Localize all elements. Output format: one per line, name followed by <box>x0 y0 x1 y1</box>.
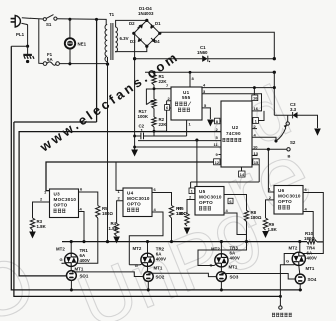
ground arrow R6 <box>184 228 191 235</box>
wire terminal riser to ch4 gate line <box>280 265 284 297</box>
svg-text:1: 1 <box>141 128 144 133</box>
U6 pin4 wire <box>303 212 313 242</box>
svg-text:555: 555 <box>182 95 191 100</box>
socket SO1 <box>67 271 77 281</box>
U2 pin16 Vcc stub <box>253 88 255 101</box>
junction node <box>245 240 248 243</box>
socket SO2 <box>143 272 153 282</box>
svg-text:6A: 6A <box>47 57 53 62</box>
resistor R1 22K <box>152 75 156 86</box>
wire TR3 MT1 to SO3 <box>220 267 222 272</box>
optocoupler U4 <box>123 188 152 217</box>
wire TR2 MT2 riser <box>147 242 149 254</box>
bridge rectifier D1-D4 <box>129 6 161 48</box>
U5 pin1 stub boxed <box>189 188 195 194</box>
svg-text:6: 6 <box>154 187 157 192</box>
switch S2 <box>274 122 295 159</box>
U2 pin 11 bus wire to U4 pin1 <box>135 146 221 148</box>
node pin5 bus at U5 drop <box>195 138 198 141</box>
rail V+ y72.3 <box>145 71 274 73</box>
U3 pin2 stub to R3 <box>33 202 50 218</box>
svg-text:MOC3010: MOC3010 <box>199 195 222 200</box>
svg-text:SO4: SO4 <box>308 277 317 282</box>
junction node <box>132 32 135 35</box>
svg-text:MOC3010: MOC3010 <box>127 196 150 201</box>
U6 pin6 wire down right <box>284 193 323 265</box>
wire drop to U5 top <box>196 140 198 186</box>
wire SO3 left return <box>148 273 216 276</box>
pin 6 label boxed <box>165 105 170 111</box>
IC U2 box <box>221 101 252 167</box>
earth ground symbol <box>23 46 34 63</box>
resistor R4 1.8K <box>114 224 118 237</box>
wire V+ column down to C3 line <box>273 72 275 115</box>
svg-text:MOC3010: MOC3010 <box>278 194 301 199</box>
junction node <box>220 240 223 243</box>
node NE1 bottom <box>68 62 71 65</box>
wire top line S1 to T1 <box>57 19 106 25</box>
op-amp U1 555 timer box <box>171 87 202 120</box>
node U6 feed on pin10 wire <box>267 148 270 151</box>
svg-text:180Ω: 180Ω <box>304 236 315 241</box>
svg-text:7: 7 <box>166 83 169 88</box>
svg-text:1N4003: 1N4003 <box>138 11 154 16</box>
svg-text:13: 13 <box>254 151 259 156</box>
ground arrow C3 <box>314 129 321 136</box>
wire secondary bottom to bridge bottom vertex <box>116 46 147 51</box>
svg-text:400V: 400V <box>230 256 240 261</box>
svg-text:U2: U2 <box>232 125 239 130</box>
capacitor C2 1 <box>135 124 154 140</box>
wire TR4 MT2 riser <box>299 242 301 253</box>
node TR4 MT2 on rail <box>298 240 301 243</box>
wire plug to S1 <box>30 17 43 20</box>
gray watermark outline letters <box>0 71 326 321</box>
node case terminal on rail2 <box>279 295 282 298</box>
svg-text:MT1: MT1 <box>75 267 84 272</box>
capacitor C3 3.3 <box>274 102 317 128</box>
svg-text:MT1: MT1 <box>229 265 238 270</box>
junction node <box>274 139 277 142</box>
optocoupler U5 <box>195 187 224 216</box>
U2 right pin 2 stub <box>252 128 257 130</box>
junction node <box>170 240 173 243</box>
svg-text:SO1: SO1 <box>80 273 89 278</box>
wire TR3 MT2 riser <box>220 242 222 254</box>
wire R7 bottom to rail <box>171 218 173 242</box>
svg-text:D3: D3 <box>130 39 136 44</box>
svg-text:OPTO: OPTO <box>199 200 213 205</box>
ground arrow R9 <box>262 231 269 238</box>
svg-text:400V: 400V <box>80 258 90 263</box>
junction node <box>147 288 150 291</box>
svg-text:100K: 100K <box>138 114 149 119</box>
U2 pin 5 bus wire <box>138 140 221 142</box>
svg-text:2: 2 <box>189 195 192 200</box>
pin 3 output wire <box>202 94 262 111</box>
wire SO1 bottom to rail <box>70 280 72 290</box>
svg-text:180Ω: 180Ω <box>102 211 113 216</box>
wire U6 pin1 riser <box>268 149 274 192</box>
svg-text:OPTO: OPTO <box>127 202 141 207</box>
svg-text:SO2: SO2 <box>156 274 165 279</box>
svg-text:2: 2 <box>40 197 43 202</box>
svg-text:T1: T1 <box>109 12 115 17</box>
resistor R10 180R horizontal <box>307 240 317 244</box>
wire SO2 bottom to rail <box>147 281 149 290</box>
resistor R3 1.8K <box>30 218 34 230</box>
plug PL1 <box>11 15 31 37</box>
svg-text:1: 1 <box>189 122 192 127</box>
wire bottom AC line fuse to T1 <box>59 57 107 64</box>
wire R8 to rail and TR3 gate <box>198 222 247 266</box>
svg-text:2: 2 <box>118 196 121 201</box>
wire bridge left vertex down (DC common) <box>133 33 136 150</box>
U2 right pin 10 wire to S2 contact <box>252 148 287 150</box>
svg-text:U3: U3 <box>54 192 61 197</box>
junction node <box>220 288 223 291</box>
wire plug neutral down <box>11 24 27 46</box>
wire TR2 MT1 to SO2 <box>147 266 149 271</box>
node rail1 right end <box>273 57 276 60</box>
svg-text:1.8K: 1.8K <box>37 224 47 229</box>
svg-text:PL1: PL1 <box>16 32 25 37</box>
wire SO4 left return <box>221 274 295 280</box>
U2 right pin 1 boxed <box>253 118 259 124</box>
svg-text:NE1: NE1 <box>78 42 87 47</box>
svg-text:MT2: MT2 <box>133 246 142 251</box>
svg-text:1: 1 <box>118 189 121 194</box>
pin 5 wire to ground arrow <box>202 108 210 119</box>
resistor R2 22K <box>153 109 155 118</box>
svg-text:MT2: MT2 <box>211 247 220 252</box>
pin 4 wire to V+ column <box>202 87 274 89</box>
junction node <box>158 32 161 35</box>
label connect metal case <box>272 313 292 317</box>
potentiometer R17 100K <box>138 99 157 119</box>
resistor R7 180R <box>169 206 173 219</box>
junction node <box>153 130 156 133</box>
wire R5 to TR1 gate <box>62 218 98 263</box>
svg-text:22K: 22K <box>159 122 168 127</box>
junction node <box>70 240 73 243</box>
svg-text:G: G <box>135 263 138 268</box>
svg-text:1.8K: 1.8K <box>176 211 186 216</box>
svg-text:S2: S2 <box>290 140 296 145</box>
U2 right pin 4 stub to S2 arc <box>252 137 276 141</box>
svg-text:74C90: 74C90 <box>226 131 241 136</box>
resistor R6 1.8K <box>185 214 189 227</box>
U6 pin2 stub to R9 <box>266 200 275 218</box>
svg-text:D1: D1 <box>155 21 161 26</box>
svg-text:3.3: 3.3 <box>290 107 297 112</box>
U3 pin6 wire <box>79 192 98 206</box>
case terminal <box>279 296 281 305</box>
svg-text:G: G <box>286 259 289 264</box>
svg-text:www.elecfans.com: www.elecfans.com <box>36 48 182 155</box>
svg-text:6.3V: 6.3V <box>120 36 129 41</box>
U2 pin 12 boxed with bus to U3 pin1 <box>214 159 220 165</box>
resistor R9 1.8K <box>263 218 267 230</box>
wire SO2 left return <box>72 272 143 277</box>
wire neutral left margin down <box>11 46 302 290</box>
socket SO3 <box>217 272 227 282</box>
svg-text:12: 12 <box>215 160 220 165</box>
node DC common rail1 tap <box>133 57 136 60</box>
svg-text:16: 16 <box>253 96 258 101</box>
U4 pin6 wire <box>152 193 172 206</box>
wire TR1 MT1 to SO1 <box>70 266 72 270</box>
U4 pin1 stub riser <box>116 162 123 190</box>
wire TR4 MT1 to SO4 <box>299 265 300 274</box>
U2 pin 2 bus wire to SO rail <box>19 132 221 276</box>
wire fused line drop x107.5 down to triac rail <box>107 64 109 242</box>
U5 pin4 wire <box>224 213 247 235</box>
svg-text:MT1: MT1 <box>154 266 163 271</box>
ground arrow U1 pin5 / U2 pin8 <box>207 120 214 127</box>
junction node <box>145 45 148 48</box>
junction node <box>153 87 156 90</box>
pin 8 stub <box>189 72 191 87</box>
U5 pin6 wire <box>224 195 247 211</box>
svg-text:D2: D2 <box>129 21 135 26</box>
svg-text:G: G <box>60 257 63 262</box>
U2 pin 15 boxed <box>253 159 259 165</box>
U4 pin2 stub to R4 <box>117 201 123 224</box>
triac TR2 <box>141 253 154 266</box>
wire R2 bottom to pins 2/6 node <box>154 127 167 131</box>
node top line at hot drop <box>95 18 98 21</box>
wire R1 bottom node / pin7 <box>146 85 171 105</box>
wire S2 top contact to C3 line <box>287 115 289 122</box>
U5 pin2 stub to R6 <box>187 200 195 214</box>
triac TR3 <box>215 254 228 267</box>
junction node <box>26 60 29 63</box>
transformer T1 <box>105 12 129 64</box>
U4 pin4 wire to gate drop <box>129 212 163 265</box>
svg-text:SO3: SO3 <box>230 274 239 279</box>
svg-text:O: O <box>0 239 46 321</box>
wire secondary top to bridge <box>116 20 147 27</box>
rail V- y58.7 with diode D5 <box>135 45 275 62</box>
triac TR1 <box>65 253 78 266</box>
triac TR4 <box>292 252 305 265</box>
junction node <box>146 240 149 243</box>
U3 pin4 wire down to rail <box>79 212 85 242</box>
svg-text:10: 10 <box>253 145 258 150</box>
svg-text:400V: 400V <box>156 257 166 262</box>
junction node <box>165 107 168 110</box>
svg-text:OPTO: OPTO <box>278 199 292 204</box>
U2 pin8 gnd stub <box>210 120 221 122</box>
switch S1 <box>43 15 57 27</box>
junction node <box>253 86 256 89</box>
svg-text:1.8K: 1.8K <box>109 226 119 231</box>
U2 bottom stub boxed 14 <box>239 167 245 177</box>
svg-text:OPTO: OPTO <box>54 203 68 208</box>
node top line at NE1 <box>68 18 71 21</box>
wire hot branch down to fuse <box>39 19 43 63</box>
junction node <box>133 146 136 149</box>
junction node <box>145 19 148 22</box>
svg-text:4: 4 <box>80 207 83 212</box>
wire triac MT2 rail <box>62 241 323 243</box>
ground arrow R3 <box>32 230 34 232</box>
svg-text:16: 16 <box>254 106 259 111</box>
neon lamp NE1 <box>65 19 87 64</box>
junction node <box>70 288 73 291</box>
svg-text:4: 4 <box>203 83 206 88</box>
junction node <box>133 135 136 138</box>
optocoupler U6 <box>274 186 303 215</box>
U2 right pin 9 clock stub <box>252 110 257 112</box>
svg-text:D4: D4 <box>154 39 160 44</box>
svg-text:B: B <box>288 154 291 159</box>
wire bridge right vertex to +rail corner <box>160 32 274 58</box>
svg-text:S1: S1 <box>46 22 52 27</box>
node neutral corner <box>26 45 29 48</box>
svg-text:180Ω: 180Ω <box>251 215 262 220</box>
svg-text:MT1: MT1 <box>306 266 315 271</box>
node rail2 right end <box>273 71 276 74</box>
svg-text:U6: U6 <box>278 188 285 193</box>
wire SO3 bottom to rail <box>220 282 222 290</box>
fuse F1 6A <box>43 52 59 65</box>
ground arrow R4 <box>113 237 120 244</box>
U3 pin1 stub <box>46 190 50 192</box>
node R1 top <box>152 71 155 74</box>
wire SO4 bottom to rail <box>299 284 301 290</box>
wire TR1 MT2 riser <box>70 242 72 254</box>
svg-text:6: 6 <box>80 187 83 192</box>
junction node <box>189 71 192 74</box>
wire pin1 return <box>154 120 187 136</box>
wire pins 2,6 riser <box>167 101 171 132</box>
junction node <box>273 86 276 89</box>
junction node <box>299 288 302 291</box>
optocoupler U3 <box>50 189 79 218</box>
svg-text:G: G <box>210 263 213 268</box>
node T1 primary bottom <box>106 62 109 65</box>
junction node <box>106 240 109 243</box>
svg-text:1N60: 1N60 <box>197 50 208 55</box>
svg-text:U4: U4 <box>127 191 134 196</box>
U2 right pin 13 wire to U5 pin1 <box>191 156 260 189</box>
svg-text:14: 14 <box>240 172 245 177</box>
resistor R8 180R <box>244 211 248 222</box>
socket SO4 <box>295 274 305 284</box>
svg-text:8: 8 <box>192 76 195 81</box>
svg-text:U5: U5 <box>199 189 206 194</box>
resistor R5 180R <box>96 206 100 219</box>
svg-text:15: 15 <box>254 160 259 165</box>
svg-text:MT2: MT2 <box>56 247 65 252</box>
svg-text:1.8K: 1.8K <box>268 227 278 232</box>
junction node <box>209 61 210 62</box>
svg-text:MT2: MT2 <box>289 246 298 251</box>
ground arrow DC common <box>131 150 138 157</box>
svg-text:MOC3010: MOC3010 <box>54 197 77 202</box>
svg-text:4: 4 <box>154 207 157 212</box>
svg-text:400V: 400V <box>307 256 317 261</box>
wire margin rail y122 to hot drop <box>14 19 281 296</box>
junction node <box>82 240 85 243</box>
